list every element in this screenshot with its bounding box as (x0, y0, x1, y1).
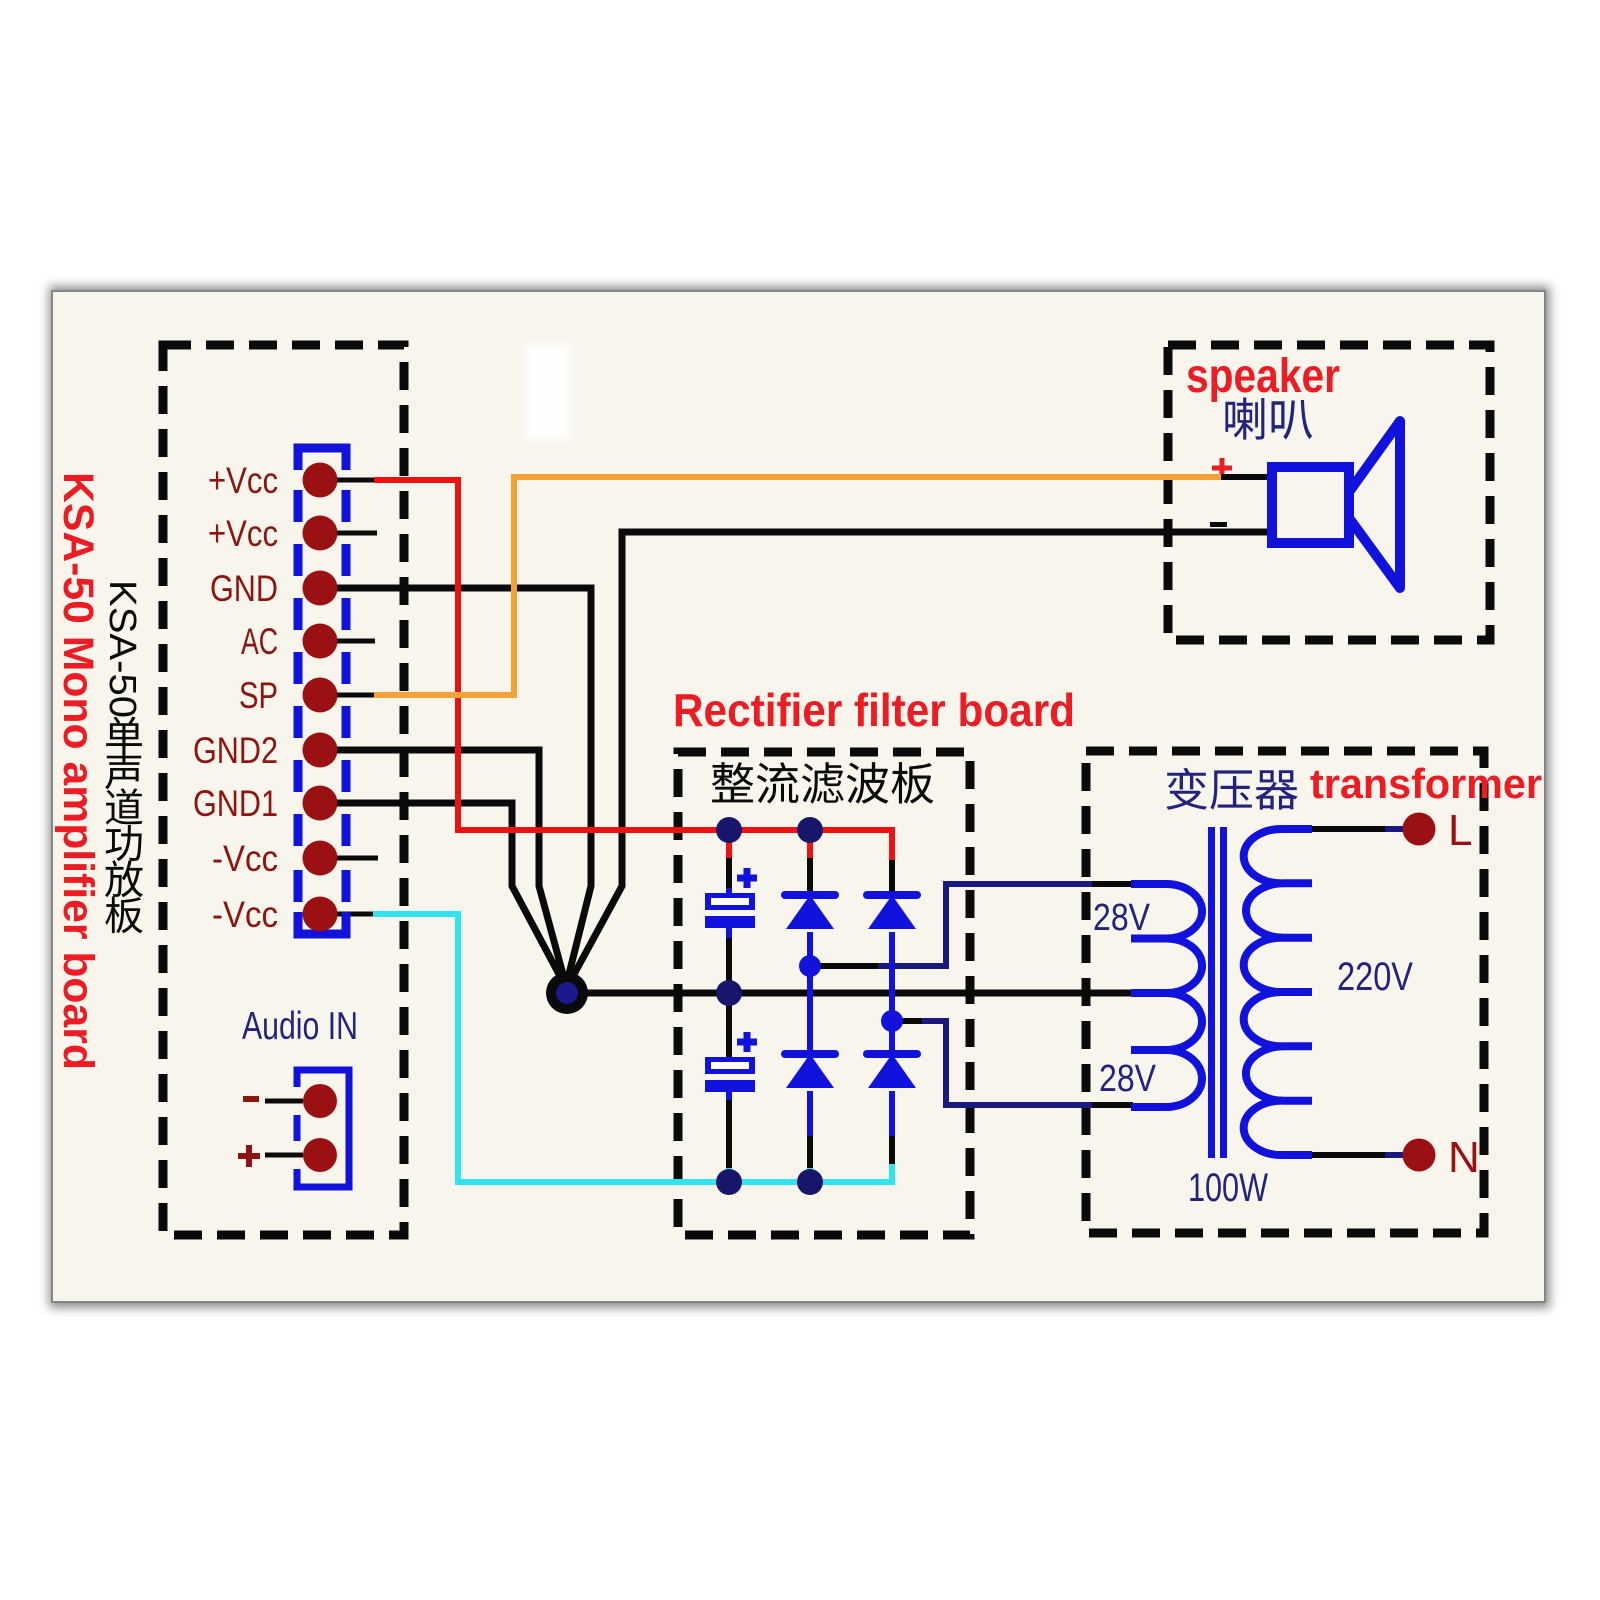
cap C1 lead (726, 858, 732, 893)
capacitor C1 (737, 868, 757, 888)
220V primary winding (1244, 829, 1312, 1155)
svg-text:GND1: GND1 (193, 783, 278, 824)
red stub cap1 (726, 830, 732, 860)
black speaker positive stub (1221, 474, 1272, 480)
pin +Vcc (303, 463, 338, 498)
svg-text:L: L (1448, 806, 1472, 855)
black GND2 wire to junction (330, 750, 564, 978)
stub wire pin +Vcc2 (330, 531, 377, 536)
transformer L lead (1312, 826, 1385, 832)
pin GND (303, 571, 338, 606)
N terminal (1403, 1139, 1436, 1172)
black GND wire to junction (330, 588, 591, 978)
svg-text:+Vcc: +Vcc (208, 513, 278, 554)
svg-text:28V: 28V (1099, 1058, 1157, 1100)
svg-text:KSA-50: KSA-50 (101, 580, 143, 718)
diode D4 (867, 1050, 917, 1058)
main ground junction (546, 972, 588, 1014)
node diode D1-D3 tap (799, 955, 821, 977)
svg-text:28V: 28V (1093, 897, 1151, 939)
svg-text:AC: AC (241, 621, 278, 662)
navy wire rectifier to 28V top winding (820, 963, 878, 969)
transformer core (1208, 827, 1215, 1158)
audio + label (238, 1145, 260, 1167)
transformer dashed box (1086, 751, 1484, 1233)
speaker dashed box (1168, 345, 1490, 640)
amplifier board dashed box (163, 345, 404, 1235)
audio pin - (303, 1084, 337, 1118)
speaker icon (1272, 467, 1349, 543)
svg-text:transformer: transformer (1310, 760, 1542, 807)
diode D1 (785, 891, 835, 899)
audio pin + (303, 1138, 337, 1172)
node mid bus cap (716, 980, 742, 1006)
transformer CJK title 变压器 (1166, 768, 1297, 810)
cap C2 lead (726, 993, 732, 1057)
black center bus to transformer (567, 990, 1131, 997)
rectifier board dashed box (678, 752, 970, 1235)
black GND1 wire to junction (330, 803, 561, 978)
node cyan bus cap2 (716, 1169, 742, 1195)
circuit sheet panel (49, 286, 1550, 1308)
diode D2 lead (889, 860, 895, 891)
audio - label (243, 1096, 259, 1102)
cyan -Vcc wire (373, 914, 892, 1182)
node diode D2-D4 tap (881, 1010, 903, 1032)
svg-text:100W: 100W (1188, 1166, 1268, 1210)
pin SP (303, 678, 338, 713)
rectifier CJK title 整流滤波板 (712, 762, 934, 804)
stub wire pin AC (330, 639, 375, 644)
white streak artifact (527, 344, 569, 440)
svg-text:220V: 220V (1337, 955, 1413, 999)
svg-text:-Vcc: -Vcc (212, 894, 278, 935)
pin +Vcc (303, 516, 338, 551)
pin -Vcc (303, 841, 338, 876)
stub wire pin +Vcc1 (330, 478, 374, 483)
node cyan bus diode D3 (797, 1169, 823, 1195)
black speaker negative wire (572, 532, 1272, 978)
svg-text:Rectifier filter board: Rectifier filter board (673, 684, 1075, 736)
stub wire pin -Vcc1 (330, 856, 378, 861)
diode D2 (867, 891, 917, 899)
svg-text:GND2: GND2 (193, 730, 278, 771)
svg-text:KSA-50 Mono amplifier board: KSA-50 Mono amplifier board (54, 472, 102, 1070)
transformer N lead (1312, 1152, 1385, 1158)
28V top winding (1131, 884, 1202, 993)
svg-text:speaker: speaker (1186, 350, 1340, 403)
audio in blue box (297, 1070, 349, 1187)
pin GND1 (303, 786, 338, 821)
orange SP speaker wire (374, 477, 1221, 695)
node red bus diode1 (797, 817, 823, 843)
stub wire pin SP (330, 693, 374, 698)
svg-text:SP: SP (239, 675, 278, 716)
speaker - mark (1210, 522, 1227, 527)
stub wire audio + (265, 1153, 303, 1158)
red stub diode1 (807, 830, 813, 860)
svg-text:+Vcc: +Vcc (208, 460, 278, 501)
node red bus cap1 (716, 817, 742, 843)
svg-text:-Vcc: -Vcc (212, 838, 278, 879)
pin AC (303, 624, 338, 659)
pin -Vcc (303, 897, 338, 932)
navy wire rectifier to 28V bottom winding (902, 1018, 922, 1024)
speaker + mark (1212, 458, 1232, 478)
red +Vcc wire (374, 480, 892, 862)
pin header blue box (298, 448, 346, 470)
svg-text:Audio IN: Audio IN (242, 1005, 358, 1048)
28V bottom winding (1131, 993, 1202, 1107)
svg-text:GND: GND (210, 568, 278, 609)
diode D3 (785, 1050, 835, 1058)
stub wire pin -Vcc2 (330, 912, 373, 917)
L terminal (1403, 813, 1436, 846)
pin GND2 (303, 733, 338, 768)
svg-text:N: N (1448, 1133, 1480, 1182)
capacitor C2 (737, 1032, 757, 1052)
diode D1 lead (807, 858, 813, 891)
speaker CJK label 喇叭 (1225, 397, 1312, 439)
stub wire audio - (265, 1099, 303, 1104)
